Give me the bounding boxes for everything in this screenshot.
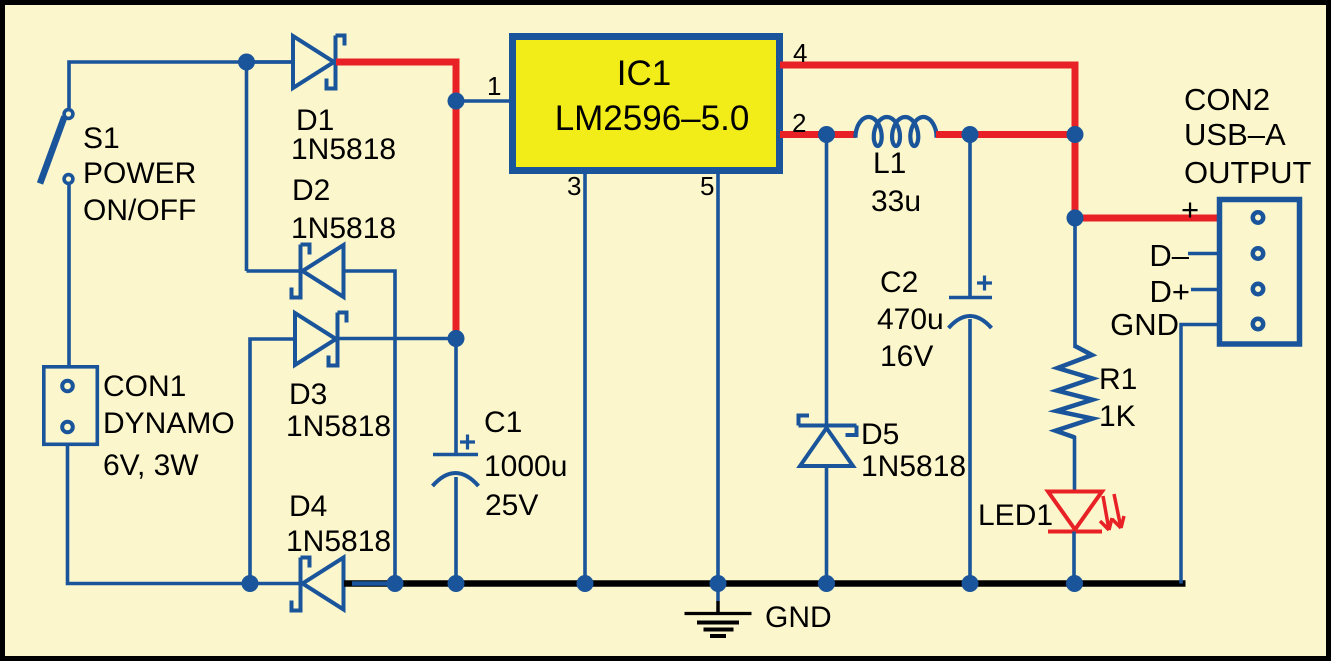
svg-text:D3: D3 [289, 378, 327, 411]
wire D2 right down to rail [342, 271, 395, 584]
label D1 1N5818 [291, 104, 396, 166]
svg-text:D+: D+ [1150, 274, 1191, 309]
node dot pin 2 / D5 [818, 126, 835, 143]
svg-text:6V, 3W: 6V, 3W [103, 449, 199, 482]
label L1 33u [871, 147, 921, 218]
label D2 1N5818 [291, 174, 396, 245]
diode D5 [799, 135, 857, 584]
wire D2 left [247, 269, 301, 273]
IC U1 LM2596 box [513, 37, 780, 171]
inductor L1 [856, 117, 937, 146]
junction dots on rail [242, 575, 259, 592]
wire D3 left down to rail [250, 339, 295, 584]
svg-text:1K: 1K [1099, 400, 1136, 433]
svg-text:2: 2 [792, 108, 806, 138]
node dot C2 branch [962, 126, 979, 143]
svg-text:GND: GND [1110, 307, 1179, 342]
svg-text:GND: GND [765, 601, 832, 634]
wire R1 to LED1 [1073, 436, 1077, 492]
wire node A down to D2 [245, 62, 249, 271]
svg-text:LM2596–5.0: LM2596–5.0 [555, 99, 750, 138]
switch S1 [40, 110, 73, 184]
wire top bus from S1 to junction A [69, 62, 293, 108]
svg-text:ON/OFF: ON/OFF [83, 194, 196, 227]
svg-text:S1: S1 [83, 122, 120, 155]
wire red D1 cathode to C1 node [336, 62, 456, 339]
resistor R1 [1056, 346, 1093, 438]
capacitor C2 [949, 135, 993, 584]
wire D4 left [250, 582, 299, 586]
label D3 1N5818 [286, 378, 391, 443]
label CON1 DYNAMO 6V, 3W [103, 370, 235, 482]
svg-text:DYNAMO: DYNAMO [103, 407, 235, 440]
pin 5 wire [716, 174, 720, 584]
wire GND pin to rail [1181, 325, 1220, 584]
ground symbol [685, 584, 752, 637]
svg-text:USB–A: USB–A [1184, 117, 1286, 152]
diode D2 [292, 245, 344, 298]
node dot C1 top [448, 330, 465, 347]
svg-text:D–: D– [1149, 238, 1189, 273]
svg-text:1N5818: 1N5818 [286, 525, 391, 558]
svg-text:1: 1 [487, 71, 501, 101]
label C2 470u 16V [877, 266, 944, 373]
svg-text:4: 4 [793, 38, 807, 68]
node A junction dot [238, 54, 255, 71]
diode D1 [293, 36, 345, 89]
svg-text:L1: L1 [873, 147, 906, 180]
svg-text:IC1: IC1 [617, 54, 671, 93]
svg-text:25V: 25V [485, 489, 538, 522]
svg-text:16V: 16V [880, 340, 933, 373]
svg-text:1N5818: 1N5818 [291, 133, 396, 166]
LED LED1 [1048, 492, 1124, 532]
label C1 1000u 25V [484, 406, 567, 522]
wire S1 to CON1 [67, 185, 71, 365]
diode D4 [292, 558, 344, 611]
wire D3 to C1 node [338, 337, 456, 341]
label D4 1N5818 [286, 490, 391, 558]
wire to D1 anode [247, 60, 294, 64]
svg-text:5: 5 [700, 171, 714, 201]
wire red output to CON2 plus [1075, 215, 1219, 222]
wire red pin 2 to L1 [780, 131, 856, 138]
svg-text:LED1: LED1 [978, 499, 1053, 532]
wire D plus stub [1191, 288, 1220, 292]
node dot output column [1067, 126, 1084, 143]
svg-text:C2: C2 [880, 266, 918, 299]
svg-text:OUTPUT: OUTPUT [1184, 155, 1312, 190]
svg-text:D4: D4 [289, 490, 327, 523]
svg-text:CON2: CON2 [1184, 82, 1270, 117]
wire red pin 4 to output node [780, 65, 1075, 218]
connector CON1 [44, 367, 98, 445]
svg-text:D2: D2 [292, 174, 330, 207]
wire blue segment D4 to junction [352, 581, 390, 586]
diode D3 [295, 313, 347, 366]
label R1 1K [1099, 363, 1137, 433]
svg-text:C1: C1 [484, 406, 522, 439]
svg-text:3: 3 [567, 171, 581, 201]
svg-text:POWER: POWER [83, 157, 196, 190]
connector CON2 [1220, 200, 1300, 345]
svg-text:470u: 470u [877, 303, 944, 336]
svg-text:1N5818: 1N5818 [861, 450, 966, 483]
capacitor C1 [433, 339, 479, 584]
node dot output corner [1067, 210, 1084, 227]
wire pin 1 stub [456, 99, 512, 103]
label CON2 USB-A OUTPUT [1184, 82, 1312, 190]
svg-text:33u: 33u [871, 185, 921, 218]
wire red L1 to output node [936, 131, 1075, 138]
wire CON1 to bottom rail [68, 446, 251, 584]
ground rail black bus [344, 580, 1186, 587]
svg-text:1000u: 1000u [484, 450, 567, 483]
pin 3 wire [583, 174, 587, 584]
node dot pin1 branch [448, 93, 465, 110]
svg-text:1N5818: 1N5818 [286, 410, 391, 443]
svg-text:+: + [1181, 192, 1199, 227]
wire LED1 to rail [1072, 532, 1076, 584]
svg-text:R1: R1 [1099, 363, 1137, 396]
label D5 1N5818 [861, 418, 966, 483]
svg-text:D5: D5 [861, 418, 899, 451]
svg-text:1N5818: 1N5818 [291, 212, 396, 245]
svg-text:CON1: CON1 [103, 370, 186, 403]
wire D minus stub [1188, 252, 1220, 256]
wire output node to R1 [1073, 218, 1077, 348]
label S1 POWER ON/OFF [83, 122, 196, 227]
